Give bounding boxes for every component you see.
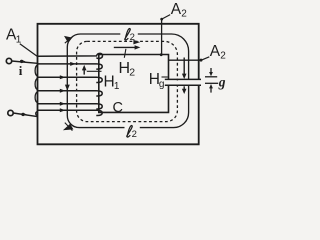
core window (inner rectangle, right edge broken at air gap) (99, 55, 169, 113)
svg-text:g: g (159, 79, 165, 90)
air gap upper cut line (165, 78, 201, 80)
svg-text:1: 1 (114, 81, 120, 92)
svg-text:A: A (171, 1, 182, 18)
svg-text:g: g (218, 75, 226, 90)
svg-text:2: 2 (130, 32, 135, 43)
arrowhead on path l2 bottom-left corner (63, 124, 74, 131)
svg-text:2: 2 (181, 9, 187, 20)
coil front turn L5 (37, 104, 102, 109)
coil front turn L2 (37, 64, 102, 69)
gap dimension tick upper (205, 76, 217, 78)
svg-text:C: C (113, 100, 123, 116)
paper background (0, 0, 236, 153)
coil front turn L1 (A1 section line) (37, 53, 102, 58)
H2 tie line (124, 49, 126, 58)
coil front turn L6 (37, 110, 102, 115)
erase dashes inside air gap (170, 80, 198, 85)
flux path l2 (solid rounded path, broken for labels and gap) (67, 34, 188, 128)
label l2 bottom (script ell + subscript 2) (127, 126, 132, 138)
arrowhead on path l2 left leg (down) (65, 85, 70, 91)
current dot-arrow on wire 2 (21, 113, 24, 116)
H2 arrow (top leg) (114, 46, 136, 48)
wire from terminal 2 (13, 113, 37, 117)
svg-text:A: A (210, 43, 221, 60)
H1 tie line (87, 70, 102, 72)
H1 arrow (left leg, up) (83, 70, 85, 75)
wire from terminal 1 (12, 61, 38, 63)
Hg arrow below gap (down) (183, 86, 185, 89)
svg-text:i: i (19, 63, 23, 78)
gap dimension tick lower (205, 82, 218, 84)
terminal circle 1 (6, 58, 11, 63)
svg-text:2: 2 (220, 51, 226, 62)
gap dimension arrow up (210, 88, 212, 93)
current dot-arrow on wire 1 (20, 60, 23, 63)
outer core boundary (right edge broken at air gap) (38, 24, 199, 145)
coil front turn L3 (37, 77, 102, 82)
svg-text:2: 2 (129, 67, 135, 79)
gap dimension arrow down (210, 68, 212, 73)
svg-text:2: 2 (132, 129, 137, 140)
Hg arrow above gap (down) (183, 58, 185, 75)
terminal circle 2 (8, 110, 13, 115)
coil back arcs on left edge (35, 65, 38, 116)
current arrowheads on coil turns (60, 62, 76, 112)
mean flux path (dashed rounded rectangle) (77, 41, 178, 121)
arrowhead on dashed path top (133, 40, 140, 45)
Hg tie line (162, 76, 168, 78)
air gap lower cut line (165, 84, 201, 86)
label l2 top (script ell + subscript 2) (125, 29, 130, 41)
arrowhead on path l2 top-left corner (64, 36, 72, 43)
coil front turn L4 (37, 91, 102, 96)
